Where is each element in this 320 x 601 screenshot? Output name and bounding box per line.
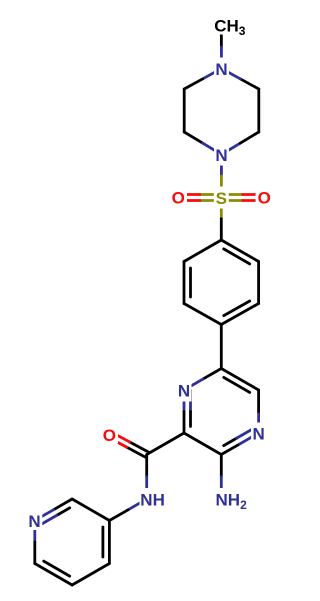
bond pyrazine C3-NH2 [220, 455, 223, 477]
double bond pyridine C6=C5 [35, 564, 72, 586]
bond N1-C2 piperazine [203, 69, 222, 79]
bond benzene C3-C4 [184, 304, 221, 325]
double bond pyrazine N1=C2 [183, 390, 186, 412]
svg-text:N: N [28, 512, 40, 531]
svg-text:N: N [215, 146, 227, 165]
atom label N1 piperazine (methyl nitrogen) [214, 58, 229, 80]
svg-text:S: S [216, 189, 227, 208]
double bond benzene C4=C5 [221, 304, 258, 325]
double bond pyridine C4=C3 [108, 521, 111, 564]
atom label CH3 methyl [213, 16, 246, 35]
bond N4-C5 piperazine [222, 143, 241, 154]
double bond benzene C6=C1 [221, 240, 258, 262]
double bond benzene C2=C3 [183, 262, 186, 304]
svg-text:O: O [172, 189, 185, 208]
bond pyrazine C2-C(=O) [147, 433, 184, 455]
bond phenyl-pyrazine link [220, 325, 223, 369]
svg-text:NH: NH [140, 491, 165, 510]
double bond S=O right [221, 199, 243, 202]
bond NH-pyridin-3-yl [128, 499, 147, 510]
bond C6-N1 piperazine [240, 79, 259, 89]
atom label N4 piperazine (sulfonamide nitrogen) [214, 144, 229, 166]
svg-text:N: N [215, 60, 227, 79]
double bond S=O left [200, 193, 222, 196]
atom label N1 pyridine [27, 510, 42, 531]
bond C(=O)-NH amide [145, 455, 148, 477]
svg-text:O: O [258, 189, 271, 208]
bond pyrazine N4-C5 [257, 412, 260, 434]
atom label O carbonyl oxygen [101, 426, 118, 444]
bond CH3-N1 (N-methyl) [220, 26, 223, 48]
double bond C=O carbonyl [130, 442, 149, 452]
double bond pyrazine C5=C6 [221, 369, 258, 391]
bond pyrazine C2-C3 [184, 433, 221, 455]
bond S-C1 aryl [220, 198, 223, 219]
svg-text:N: N [178, 381, 190, 400]
atom label S sulfonyl sulfur [214, 187, 229, 209]
bond benzene C1-C2 [184, 240, 221, 262]
bond pyridine C5-C4 [72, 564, 109, 586]
atom label O sulfonyl oxygen left [170, 189, 187, 207]
atom label NH amide nitrogen [140, 488, 167, 510]
svg-text:O: O [103, 426, 116, 445]
atom label NH2 amino group [214, 488, 247, 510]
bond C2-C3 piperazine [183, 89, 186, 132]
bond pyridine C3-C2 [72, 499, 109, 521]
bond benzene C5-C6 [257, 262, 260, 304]
bond pyridine N1-C6 [33, 521, 36, 543]
bond C3-N4 piperazine [184, 132, 203, 143]
svg-text:N: N [252, 424, 264, 443]
bond C5-C6 piperazine [257, 89, 260, 132]
bond N4-S sulfonamide [220, 155, 223, 177]
double bond pyrazine C3=N4 [221, 444, 240, 455]
atom label O sulfonyl oxygen right [256, 189, 273, 207]
atom label N1 pyrazine [177, 380, 192, 402]
bond pyrazine C6-N1 [203, 369, 222, 380]
double bond pyridine C2=N1 [53, 499, 72, 510]
atom label N4 pyrazine [251, 423, 266, 445]
